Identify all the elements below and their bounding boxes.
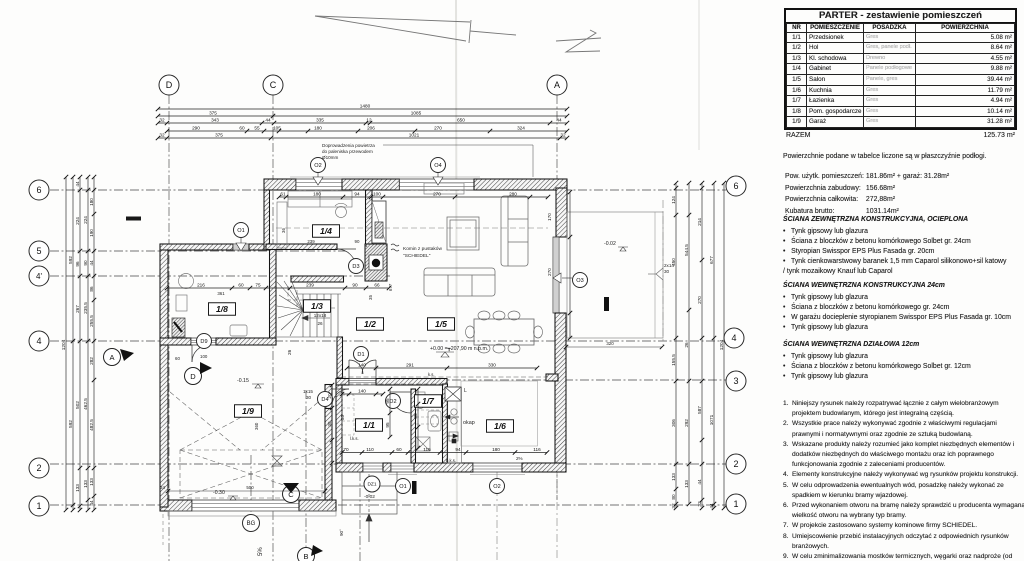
dining chair bottom 3	[508, 344, 520, 353]
svg-text:2: 2	[36, 463, 41, 473]
door D1 double swing	[349, 360, 376, 378]
svg-text:292: 292	[684, 419, 689, 427]
wall vestibule left wall	[336, 385, 342, 463]
svg-text:1/2: 1/2	[364, 319, 376, 329]
svg-text:-0.02: -0.02	[364, 494, 375, 500]
svg-text:335: 335	[316, 118, 324, 123]
svg-text:D1: D1	[357, 352, 364, 358]
svg-text:255.5: 255.5	[89, 315, 94, 327]
svg-text:-0.02: -0.02	[604, 241, 616, 247]
window O1 utility window	[233, 244, 249, 250]
svg-text:360: 360	[254, 422, 259, 430]
extension line kitchen window	[496, 472, 498, 561]
dimension chain right detail2	[688, 183, 690, 504]
svg-text:32: 32	[159, 118, 165, 123]
svg-text:D3: D3	[352, 264, 359, 270]
furniture living sofa horizontal	[424, 268, 495, 296]
svg-text:592: 592	[68, 256, 73, 264]
svg-text:95: 95	[385, 398, 390, 404]
svg-text:239: 239	[306, 283, 314, 288]
text komin schiedel	[391, 244, 442, 259]
svg-text:2: 2	[733, 459, 738, 469]
svg-text:L: L	[464, 388, 467, 394]
svg-text:BG: BG	[247, 521, 256, 527]
svg-text:86: 86	[89, 286, 94, 292]
dimension chain top detail 2	[167, 130, 567, 132]
dim 320 terrace	[564, 341, 664, 349]
svg-text:90: 90	[83, 260, 88, 266]
svg-text:O4: O4	[434, 163, 441, 169]
svg-text:1/7: 1/7	[422, 396, 435, 406]
kitchen-living dashed boundary 2	[341, 383, 446, 385]
terrace steps 2x14	[648, 268, 663, 280]
kitchen-living dashed boundary	[341, 376, 548, 378]
wall upper section left wall	[264, 190, 270, 250]
dim 361	[217, 291, 225, 296]
svg-text:D: D	[190, 372, 196, 381]
svg-text:1480: 1480	[360, 104, 371, 109]
svg-text:35: 35	[340, 415, 345, 420]
svg-text:500: 500	[246, 485, 254, 490]
kitchen okap arrows	[445, 415, 459, 443]
axis circle 1 right	[726, 494, 746, 514]
text 1x15 30	[303, 389, 313, 400]
svg-text:95: 95	[385, 422, 390, 428]
svg-text:44: 44	[89, 260, 94, 266]
kitchen vent shaft	[445, 387, 461, 401]
dimension chain left detail	[93, 177, 95, 510]
svg-text:6: 6	[36, 185, 41, 195]
svg-text:O2: O2	[314, 163, 321, 169]
svg-text:30: 30	[664, 269, 670, 274]
dining chair top 1	[478, 311, 490, 320]
marker O3 right	[573, 273, 588, 288]
axis circle 6 right	[726, 176, 746, 196]
svg-text:502: 502	[75, 401, 80, 409]
dimension chain top detail 3	[158, 137, 567, 139]
axis circle 5 left	[29, 241, 49, 261]
svg-text:b.k.s.: b.k.s.	[446, 458, 456, 463]
dimension chain bottom interior dims	[342, 452, 547, 454]
svg-text:650: 650	[457, 118, 465, 123]
section marker B bottom	[298, 545, 324, 561]
room label 1/8 pom gospodarcze	[209, 303, 236, 316]
axis line 5 horizontal	[50, 250, 345, 252]
dimension chain interior middle	[167, 287, 389, 289]
marker D3	[349, 259, 364, 274]
furniture 1/4 wardrobe	[288, 191, 352, 207]
svg-text:1/5: 1/5	[435, 319, 447, 329]
sill line kitchen window	[470, 474, 525, 476]
axis circle 1 left	[29, 496, 49, 516]
axis circle 4 left	[29, 331, 49, 351]
svg-text:544.5: 544.5	[684, 244, 689, 256]
furniture 1/4 chair	[335, 203, 347, 217]
axis circle 3 right	[726, 371, 746, 391]
wall wall 1/8 to garage left	[160, 338, 191, 345]
room label 1/4 gabinet	[313, 225, 340, 238]
svg-text:44: 44	[556, 118, 562, 123]
svg-text:l.k.s.: l.k.s.	[350, 436, 359, 441]
garage car zone dashed	[170, 392, 330, 498]
wall garage right wall	[325, 409, 332, 501]
dim 60 100 garage top	[175, 354, 208, 361]
area summary	[783, 170, 1021, 218]
svg-text:4': 4'	[36, 272, 42, 281]
kitchen counter	[447, 387, 462, 463]
kitchen floor edge	[461, 381, 538, 446]
svg-text:Ø10mm: Ø10mm	[322, 155, 339, 160]
axis line 2 horizontal	[50, 463, 726, 465]
roof overhang dashed line upper section	[276, 227, 548, 229]
terrace outline	[567, 212, 663, 338]
axis line B vertical	[305, 390, 307, 548]
svg-text:677: 677	[388, 283, 393, 291]
wall top exterior left segment	[264, 179, 296, 190]
dining chair right	[534, 326, 543, 338]
svg-text:80: 80	[671, 494, 676, 500]
axis circle 4 right	[724, 328, 744, 348]
dimension chain right detail3	[701, 183, 703, 508]
stairs direction arrow	[302, 316, 330, 321]
svg-text:26: 26	[684, 342, 689, 348]
svg-text:26: 26	[317, 321, 323, 326]
wall wall above staircase	[291, 276, 344, 282]
room label 1/5 salon	[428, 318, 455, 331]
dining chair left	[466, 326, 475, 338]
svg-text:70: 70	[343, 447, 349, 452]
svg-text:224: 224	[83, 216, 88, 224]
svg-text:587: 587	[697, 406, 702, 414]
axis circle 2 right	[726, 454, 746, 474]
kitchen dashed worktop lines	[416, 410, 443, 424]
window O1 bottom window	[391, 463, 414, 472]
svg-text:1204: 1204	[719, 339, 724, 350]
axis line A vertical	[556, 95, 558, 500]
svg-text:482.5: 482.5	[89, 419, 94, 431]
svg-text:35: 35	[327, 421, 332, 427]
vestibule dashed closet	[342, 395, 354, 435]
paper crease right	[698, 0, 700, 150]
text level -0.30	[213, 490, 238, 500]
marker O2 bottom	[490, 479, 505, 494]
axis line 4 horizontal	[50, 340, 724, 342]
wall bottom exterior mid	[414, 463, 473, 472]
wall interior wall between 1/8 and stairs	[270, 250, 277, 345]
svg-text:1: 1	[36, 501, 41, 511]
svg-text:592: 592	[68, 420, 73, 428]
svg-text:155.5: 155.5	[671, 354, 676, 366]
wall right exterior upper	[556, 188, 567, 237]
room table PARTER	[784, 8, 1017, 130]
svg-text:66: 66	[374, 283, 380, 288]
svg-text:270: 270	[547, 268, 552, 276]
wall wall hall-vestibule left stub	[336, 379, 349, 386]
svg-text:140: 140	[358, 363, 366, 368]
window D1 door opening	[349, 379, 376, 386]
svg-text:Doprowadzenia powietrza: Doprowadzenia powietrza	[322, 143, 375, 148]
svg-text:O2: O2	[493, 484, 500, 490]
section marker D garage	[185, 362, 213, 385]
svg-text:-0.15: -0.15	[237, 378, 249, 384]
table total RAZEM	[784, 131, 1017, 140]
svg-text:133: 133	[684, 480, 689, 488]
garage apron line	[168, 511, 336, 516]
svg-text:190: 190	[89, 229, 94, 237]
svg-text:291: 291	[406, 363, 414, 368]
svg-text:214: 214	[697, 218, 702, 226]
svg-text:180: 180	[313, 192, 321, 197]
axis circle 6 left	[29, 180, 49, 200]
svg-text:1/9: 1/9	[242, 406, 254, 416]
dining chair bottom 2	[493, 344, 505, 353]
svg-text:32: 32	[159, 133, 165, 138]
svg-text:44: 44	[265, 118, 271, 123]
svg-text:60: 60	[396, 447, 402, 452]
svg-text:180: 180	[89, 198, 94, 206]
note about areas	[783, 152, 1021, 162]
dimension chain top detail 1	[158, 122, 567, 124]
svg-text:34: 34	[160, 485, 165, 490]
svg-text:do paleniska przewodem: do paleniska przewodem	[322, 149, 373, 154]
svg-text:60: 60	[238, 283, 244, 288]
svg-text:1/1: 1/1	[363, 420, 375, 430]
furniture dining table	[474, 319, 534, 345]
svg-text:239: 239	[307, 239, 315, 244]
axis circle D	[159, 75, 179, 95]
wall bottom exterior right corner	[522, 463, 566, 472]
dimension chain left total	[65, 177, 67, 510]
svg-text:60: 60	[239, 126, 245, 131]
axis circle BG	[243, 515, 260, 532]
svg-text:35: 35	[368, 295, 373, 300]
svg-text:6: 6	[733, 181, 738, 191]
dimension chain right detail1	[675, 183, 677, 508]
svg-text:115: 115	[423, 447, 431, 452]
axis circle A	[547, 75, 567, 95]
svg-text:30: 30	[306, 395, 312, 400]
section marker A	[104, 349, 135, 366]
svg-text:133: 133	[89, 478, 94, 486]
svg-text:A: A	[109, 353, 114, 362]
room label 1/9 garaz	[235, 405, 262, 418]
svg-text:140: 140	[358, 389, 366, 394]
axis line 1 horizontal	[50, 504, 726, 506]
svg-text:180: 180	[492, 447, 500, 452]
wall partition 1/1-1/7	[411, 389, 416, 463]
furniture 1/4 shelf	[277, 202, 287, 248]
pencil scribble Z mark	[556, 30, 601, 52]
wall kitchen-living stub right	[546, 374, 558, 381]
svg-text:343: 343	[211, 118, 219, 123]
svg-text:D: D	[166, 80, 173, 90]
svg-text:116: 116	[533, 447, 541, 452]
wall wall right of 1/4	[366, 190, 373, 244]
dimension chain right axes	[713, 183, 715, 508]
marker D9	[197, 334, 212, 349]
room label 1/2 hol	[357, 318, 384, 331]
svg-text:32: 32	[697, 501, 702, 507]
wall room 1/8 top wall left	[160, 244, 233, 250]
terrace door black mark	[604, 297, 609, 311]
svg-text:20: 20	[327, 393, 332, 399]
svg-text:D9: D9	[200, 339, 207, 345]
svg-text:12x18: 12x18	[314, 313, 327, 318]
svg-text:32: 32	[560, 133, 566, 138]
text level -0.15	[237, 378, 264, 388]
window sill line top	[290, 176, 480, 178]
svg-text:235.5: 235.5	[83, 302, 88, 314]
1/8 cabinet	[176, 295, 187, 311]
svg-text:224: 224	[75, 217, 80, 225]
dimension chain left mid total	[72, 177, 74, 510]
text level 0.00	[430, 346, 488, 357]
dimension chain vestibule mini	[389, 389, 391, 437]
svg-text:2x14: 2x14	[664, 263, 674, 268]
svg-text:1021: 1021	[409, 133, 420, 138]
svg-text:100: 100	[373, 192, 381, 197]
wall interior wall under room 1/4	[266, 244, 337, 250]
1/8 washer	[230, 325, 247, 336]
numbered notes list	[783, 399, 1024, 561]
axis circle C	[263, 75, 283, 95]
svg-text:270: 270	[697, 296, 702, 304]
svg-text:100: 100	[200, 354, 208, 359]
svg-text:3: 3	[733, 376, 738, 386]
dining chair top 2	[493, 311, 505, 320]
svg-text:75: 75	[255, 283, 261, 288]
svg-text:44: 44	[75, 181, 80, 187]
dim 239 1/4	[307, 239, 367, 248]
black door leaf mark bottom	[412, 481, 417, 494]
svg-text:1204: 1204	[61, 339, 66, 350]
marker O4 top	[431, 158, 446, 173]
svg-text:216: 216	[197, 283, 205, 288]
entrance steps	[342, 472, 397, 514]
marker O2 leader	[313, 173, 323, 185]
svg-text:306: 306	[671, 419, 676, 427]
svg-text:Komin z pustaków: Komin z pustaków	[403, 246, 442, 252]
svg-text:96: 96	[75, 261, 80, 267]
dimension chain left axes	[79, 177, 81, 510]
text doprowadzenie powietrza	[322, 143, 533, 177]
sill line bottom windows	[388, 474, 417, 476]
svg-text:35: 35	[413, 413, 418, 419]
door D2 arc	[390, 392, 411, 413]
window garage door opening	[192, 500, 299, 511]
1/8 boiler tank	[179, 274, 194, 289]
svg-text:133: 133	[83, 480, 88, 488]
svg-text:"SCHIEDEL": "SCHIEDEL"	[403, 253, 431, 259]
svg-text:4: 4	[36, 336, 41, 346]
wall right exterior lower	[555, 313, 566, 470]
marker D4	[318, 392, 333, 407]
room label 1/1 przedsionek	[356, 419, 383, 432]
wall bottom exterior stub	[383, 463, 391, 472]
wall wall hall-rooms right	[376, 379, 447, 386]
svg-text:677: 677	[709, 256, 714, 264]
svg-text:133: 133	[671, 473, 676, 481]
window O2 kitchen window	[473, 463, 522, 472]
text 2x14 30	[664, 263, 674, 274]
svg-text:1085: 1085	[411, 111, 422, 116]
svg-text:36: 36	[281, 228, 286, 233]
svg-text:okap: okap	[463, 420, 475, 426]
bathroom shower corner	[416, 437, 430, 451]
svg-text:5: 5	[36, 246, 41, 256]
svg-text:44: 44	[709, 503, 714, 509]
svg-text:12: 12	[366, 118, 372, 123]
window D9 door gap	[191, 338, 216, 345]
svg-text:44: 44	[697, 479, 702, 485]
window DZ1 entrance door	[363, 463, 383, 472]
text level -0.02 terrace	[604, 241, 628, 251]
entrance slope arrow	[366, 514, 372, 542]
svg-text:361: 361	[217, 291, 225, 296]
wall top exterior right segment	[474, 179, 567, 190]
bathroom toilet	[416, 392, 425, 409]
dim 330 360 garage verticals	[254, 295, 373, 430]
section marker C	[283, 483, 300, 503]
wall garage right wall top	[325, 385, 332, 409]
wall top exterior middle segment	[342, 179, 399, 190]
svg-text:1/4: 1/4	[320, 226, 332, 236]
svg-text:290: 290	[192, 126, 200, 131]
svg-text:375: 375	[209, 111, 217, 116]
svg-text:206: 206	[367, 126, 375, 131]
section sciana zewnetrzna	[783, 216, 1023, 223]
svg-text:270: 270	[434, 126, 442, 131]
svg-text:1071: 1071	[709, 414, 714, 425]
marker D1	[354, 347, 369, 362]
svg-text:DZ1: DZ1	[367, 482, 376, 488]
axis line 4p horizontal	[50, 275, 390, 277]
svg-text:1/6: 1/6	[494, 421, 506, 431]
furniture living square table	[447, 217, 479, 250]
svg-text:324: 324	[517, 126, 525, 131]
svg-text:k.s.: k.s.	[428, 372, 435, 377]
marker DZ1	[364, 476, 380, 492]
svg-text:1/8: 1/8	[216, 304, 228, 314]
extension line right wall bottom	[556, 470, 558, 561]
window O2 top window	[296, 179, 342, 190]
svg-text:61: 61	[280, 192, 286, 197]
svg-text:2%: 2%	[516, 456, 523, 461]
svg-text:375: 375	[215, 133, 223, 138]
axis circle 4' left	[29, 266, 49, 286]
door D4 arc	[332, 389, 349, 406]
paper crease left	[456, 0, 457, 561]
extension line terrace right	[662, 200, 664, 345]
black section bar left	[126, 217, 141, 221]
wall wall 1/8 to garage right	[216, 338, 276, 345]
staircase dashed guide	[288, 286, 336, 308]
dimension chain hall-kitchen top dims	[347, 367, 537, 369]
svg-text:5%: 5%	[258, 547, 264, 556]
svg-text:110: 110	[366, 447, 374, 452]
axis line 6 horizontal	[50, 189, 726, 191]
wall wall hall-stairs	[337, 337, 343, 378]
extension line entrance	[359, 472, 361, 561]
svg-text:90: 90	[352, 283, 358, 288]
svg-text:O1: O1	[237, 228, 244, 234]
wall left exterior	[160, 244, 168, 507]
svg-text:1/3: 1/3	[311, 301, 323, 311]
bathroom washbasin	[428, 411, 441, 431]
dining chair top 3	[508, 311, 520, 320]
axis line BG vertical	[250, 455, 252, 515]
svg-text:+0.00 =┳207,90 m n.p.m.: +0.00 =┳207,90 m n.p.m.	[430, 346, 488, 352]
